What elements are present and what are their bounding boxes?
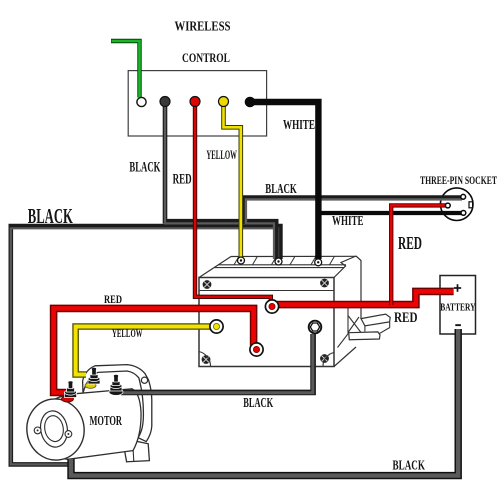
wire: black ground from left border to solenoid stud 2 bbox=[11, 226, 281, 464]
motor stud C (ground) bbox=[109, 375, 123, 396]
label BLACK bottom wire bbox=[393, 458, 426, 473]
solenoid terminal white hex bbox=[309, 321, 322, 334]
label BLACK control wire bbox=[129, 160, 160, 176]
motor stud A (red) bbox=[62, 381, 77, 402]
control terminal red bbox=[190, 97, 200, 107]
wire: thick black from control to solenoid stud 3 bbox=[254, 102, 318, 259]
label BLACK motor ground wire bbox=[243, 395, 273, 410]
label RED battery wire bbox=[394, 310, 418, 326]
wire: black branch to socket pin 3 (labeled WHITE) bbox=[318, 211, 462, 215]
label CONTROL bbox=[182, 51, 230, 65]
battery B1 bbox=[440, 276, 476, 335]
motor flange plate bbox=[83, 365, 152, 442]
solenoid box U2 front face bbox=[199, 278, 334, 367]
wire: black branch to socket pin 1 bbox=[244, 197, 462, 224]
mounting bracket on solenoid right side bbox=[348, 314, 390, 340]
svg-text:BLACK: BLACK bbox=[129, 160, 160, 176]
solenoid box stud platform 2 bbox=[272, 256, 296, 265]
solenoid box corner screw top-left bbox=[203, 280, 212, 289]
label RED motor wire bbox=[104, 293, 122, 306]
wire: black from control terminal to solenoid stud 2 bbox=[165, 103, 276, 259]
label THREE-PIN SOCKET bbox=[420, 173, 497, 187]
motor stud B (yellow) bbox=[85, 368, 100, 389]
solenoid top stud 2 bbox=[275, 258, 282, 265]
socket pin 3 bbox=[461, 211, 466, 216]
wire: red from main red to socket pin 2 bbox=[391, 205, 446, 305]
svg-text:RED: RED bbox=[398, 233, 422, 253]
solenoid top stud 1 bbox=[238, 257, 245, 264]
solenoid box U2 top face bbox=[199, 256, 356, 277]
svg-text:WHITE: WHITE bbox=[283, 118, 315, 133]
control terminal black bbox=[160, 97, 170, 107]
wire: green antenna into control bbox=[111, 41, 140, 98]
solenoid box corner screw bottom-left bbox=[199, 352, 211, 367]
motor cap screw right bbox=[65, 431, 72, 438]
solenoid terminal 2 red bbox=[250, 343, 263, 356]
wire: black battery negative to motor (bottom) bbox=[71, 329, 458, 476]
control terminal black dot bbox=[245, 97, 256, 108]
solenoid box stud platform 1 bbox=[234, 256, 258, 265]
wire: black from solenoid white terminal to motor stud bbox=[121, 334, 313, 393]
svg-text:RED: RED bbox=[394, 310, 418, 326]
label WHITE socket wire bbox=[332, 213, 364, 228]
wire: red main from solenoid terminal to battery positive bbox=[272, 291, 454, 304]
motor foot block bbox=[124, 440, 149, 462]
svg-text:BLACK: BLACK bbox=[265, 181, 297, 196]
label RED socket wire bbox=[398, 233, 422, 253]
svg-text:RED: RED bbox=[104, 293, 122, 306]
control terminal yellow bbox=[219, 97, 229, 107]
three-pin socket J1 body bbox=[440, 188, 473, 221]
svg-text:YELLOW: YELLOW bbox=[112, 326, 143, 340]
wire: red from control terminal to solenoid terminal 1 bbox=[195, 104, 271, 302]
wire: yellow from solenoid terminal to motor stud bbox=[76, 327, 210, 375]
svg-text:CONTROL: CONTROL bbox=[182, 51, 230, 65]
motor M1 cylinder body bbox=[48, 389, 142, 460]
socket pin 2 bbox=[445, 203, 450, 208]
wireless control box U1 bbox=[128, 71, 266, 136]
svg-text:WHITE: WHITE bbox=[332, 213, 364, 228]
motor cap screw left bbox=[34, 427, 41, 434]
socket pin 1 bbox=[461, 194, 466, 199]
svg-text:THREE-PIN SOCKET: THREE-PIN SOCKET bbox=[420, 173, 497, 187]
label BLACK big top-left bbox=[28, 204, 73, 228]
svg-text:WIRELESS: WIRELESS bbox=[175, 19, 231, 34]
label WHITE top wire bbox=[283, 118, 315, 133]
label MOTOR bbox=[90, 413, 123, 428]
solenoid box stud platform 3 bbox=[311, 256, 335, 265]
svg-text:RED: RED bbox=[173, 171, 192, 187]
solenoid terminal 1 red bbox=[265, 300, 278, 313]
solenoid terminal yellow bbox=[210, 320, 223, 333]
label WIRELESS bbox=[175, 19, 231, 34]
label YELLOW motor wire bbox=[112, 326, 143, 340]
motor front cap bbox=[23, 395, 88, 464]
solenoid box corner screw top-right bbox=[320, 279, 329, 288]
control terminal white bbox=[137, 97, 146, 106]
label YELLOW control wire bbox=[206, 147, 237, 162]
label BLACK socket wire bbox=[265, 181, 297, 196]
svg-text:BLACK: BLACK bbox=[243, 395, 273, 410]
svg-text:BLACK: BLACK bbox=[393, 458, 426, 473]
solenoid box jagged break edge bbox=[334, 256, 361, 367]
wire: red from solenoid terminal 2 to motor stud bbox=[54, 308, 254, 392]
svg-text:MOTOR: MOTOR bbox=[90, 413, 123, 428]
svg-text:BATTERY: BATTERY bbox=[440, 302, 476, 313]
svg-text:YELLOW: YELLOW bbox=[206, 147, 237, 162]
wire: yellow from control to solenoid stud 1 bbox=[224, 104, 241, 258]
solenoid box corner screw bottom-right bbox=[320, 353, 334, 367]
label RED control wire bbox=[173, 171, 192, 187]
svg-text:BLACK: BLACK bbox=[28, 204, 73, 228]
solenoid top stud 3 bbox=[315, 259, 322, 266]
